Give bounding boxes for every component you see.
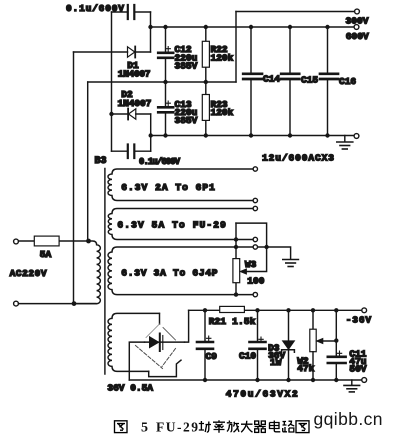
- diode D1 1N4007: [128, 47, 151, 58]
- terminal 600V: [354, 25, 359, 30]
- caption char 图: [115, 421, 128, 433]
- node C10 bottom: [255, 378, 259, 382]
- wire AC1 to fuse: [19, 240, 89, 242]
- terminal 0V top-right: [354, 134, 359, 139]
- svg-text:1N4007: 1N4007: [118, 68, 151, 79]
- svg-text:5A: 5A: [40, 249, 52, 260]
- fuse 5A: [34, 236, 59, 246]
- caption char 大: [241, 421, 253, 432]
- wire 0V rail y=135.5: [151, 135, 354, 137]
- diode D2 1N4007: [128, 109, 151, 120]
- wire D1 cathode vertical x=150.5: [150, 12, 152, 52]
- svg-text:R21 1.5k: R21 1.5k: [209, 316, 256, 327]
- svg-text:B3: B3: [95, 156, 107, 167]
- terminal AC1: [14, 239, 19, 244]
- svg-text:0.1u/600V: 0.1u/600V: [66, 3, 124, 14]
- potentiometer W2 wiper arrow: [316, 338, 336, 343]
- node D2 anode / 0V rail: [149, 133, 153, 137]
- svg-text:12u/600ACX3: 12u/600ACX3: [262, 153, 334, 164]
- transformer core: [104, 169, 106, 375]
- node C16 bottom: [325, 133, 329, 137]
- svg-text:AC220V: AC220V: [10, 268, 47, 279]
- terminal AC2: [14, 301, 19, 306]
- wire AC1 riser x=87.7 to mid rail: [87, 82, 89, 241]
- wire bridge left exit to bottom rail: [129, 342, 144, 380]
- ground (W3): [283, 260, 299, 267]
- resistor R23: [202, 82, 209, 136]
- caption char 放: [227, 421, 239, 433]
- node C11 top: [334, 308, 338, 312]
- wire top cap1 left vertical (AC2 net x=111.5): [111, 12, 113, 151]
- wire -36V rail y=310.3: [189, 309, 362, 311]
- wire AC2 riser x=73.5 to D1 anode: [73, 52, 75, 304]
- node C9 bottom: [203, 378, 207, 382]
- svg-text:36V 0.5A: 36V 0.5A: [107, 382, 153, 393]
- svg-text:6.3V 3A To 6J4P: 6.3V 3A To 6J4P: [121, 267, 217, 278]
- capacitor C9: [197, 310, 213, 380]
- capacitor C16: [320, 27, 338, 136]
- terminal 300V: [355, 9, 360, 14]
- wire D2 anode vertical x=150.7: [150, 114, 152, 151]
- svg-text:120k: 120k: [211, 52, 234, 63]
- terminal 0V bottom-right: [362, 378, 367, 383]
- node C13 bottom: [163, 133, 167, 137]
- wire bridge right exit to -36V rail: [185, 310, 189, 342]
- capacitor C13: [158, 82, 173, 136]
- node D3 top: [286, 308, 290, 312]
- terminal winding3 top: [253, 245, 257, 249]
- svg-text:FU-29: FU-29: [156, 420, 198, 435]
- node D1 cathode / 600V rail: [148, 25, 152, 29]
- caption char 器: [255, 421, 266, 432]
- node C10 top: [255, 308, 259, 312]
- wire winding4 bottom step to bridge: [149, 360, 181, 376]
- svg-text:gqibb.cn: gqibb.cn: [314, 409, 383, 429]
- caption 图 5 FU-29 ...: [115, 421, 128, 433]
- node C16 top: [325, 25, 329, 29]
- terminal winding1 bottom: [253, 198, 257, 202]
- node D2 cathode: [109, 112, 113, 116]
- svg-text:385V: 385V: [175, 115, 198, 126]
- node C11 bottom: [334, 378, 338, 382]
- transformer secondary winding 4 (36V 0.5A): [108, 313, 159, 371]
- svg-text:C10: C10: [239, 350, 256, 361]
- bridge rectifier feed wire: [159, 313, 161, 324]
- capacitor C10: [250, 310, 266, 380]
- zener diode D3: [282, 310, 295, 380]
- transformer secondary winding 3 (6.3V 3A): [108, 247, 253, 295]
- terminal winding2 top: [253, 206, 257, 210]
- wire cap2 left horizontal: [112, 150, 128, 152]
- node R22-R23 midpoint: [204, 80, 208, 84]
- capacitor C12: [158, 27, 173, 82]
- svg-text:600V: 600V: [346, 31, 369, 42]
- node C15 bottom: [288, 133, 292, 137]
- node W2 top: [311, 308, 315, 312]
- bridge rectifier center wire: [145, 341, 185, 343]
- svg-text:1N4007: 1N4007: [118, 98, 152, 109]
- capacitor C14: [243, 27, 262, 136]
- node fuse output: [86, 239, 91, 244]
- svg-text:47k: 47k: [297, 363, 314, 374]
- caption char 功: [199, 421, 211, 432]
- wire AC2 horizontal: [19, 303, 97, 305]
- node C9 top: [203, 308, 207, 312]
- transformer primary winding: [74, 241, 100, 304]
- svg-text:W3: W3: [245, 259, 257, 270]
- wire mid rail y=82 (doubler midpoint): [88, 81, 236, 83]
- ground top-right: [337, 136, 353, 150]
- capacitor 0.1u/600V top (cap plates): [128, 5, 135, 19]
- wire cap2 right horizontal: [136, 150, 151, 152]
- transformer secondary winding 1 (6.3V 2A): [108, 169, 253, 201]
- wire winding3-top to ground: [258, 247, 291, 259]
- wire 300V tap vertical x=236 down to mid rail: [235, 12, 237, 83]
- node D3 bottom: [286, 378, 290, 382]
- node wiper riser / ground wire: [264, 245, 268, 249]
- node R23 bottom: [204, 133, 208, 137]
- node W2 wiper / C11: [334, 338, 338, 342]
- potentiometer W2: [310, 310, 316, 380]
- potentiometer W3 column x=236: [235, 223, 237, 295]
- svg-text:1W: 1W: [270, 357, 282, 368]
- svg-text:120k: 120k: [211, 107, 234, 118]
- node C12-C13 midpoint: [163, 80, 167, 84]
- svg-text:C9: C9: [206, 351, 218, 362]
- svg-text:5: 5: [141, 421, 148, 436]
- svg-text:50V: 50V: [349, 364, 366, 375]
- capacitor 0.1u/600V bottom (cap plates): [128, 145, 135, 159]
- node R22 top: [204, 25, 208, 29]
- wire D1 anode horizontal: [74, 51, 128, 53]
- node C15 top: [288, 25, 292, 29]
- svg-text:100: 100: [247, 275, 264, 286]
- wire D2 cathode horizontal: [112, 113, 128, 115]
- potentiometer W3 body: [233, 259, 240, 283]
- capacitor C11: [328, 310, 346, 380]
- caption char 率: [213, 420, 225, 433]
- node C12 top: [163, 25, 167, 29]
- node winding3 bottom / pot: [234, 292, 238, 296]
- terminal winding2 bottom: [253, 237, 257, 241]
- svg-text:0.1u/600V: 0.1u/600V: [139, 157, 181, 167]
- caption char 电: [270, 421, 281, 432]
- node winding2 bottom / pot: [234, 237, 238, 241]
- capacitor C15: [281, 27, 299, 136]
- node AC2 bottom: [72, 301, 77, 306]
- svg-text:6.3V 2A To 6P1: 6.3V 2A To 6P1: [121, 182, 215, 193]
- wire cap1 left horizontal: [112, 11, 128, 13]
- svg-text:470u/63VX2: 470u/63VX2: [226, 389, 298, 400]
- resistor R22: [202, 27, 209, 82]
- node winding3 top / pot: [234, 245, 238, 249]
- node C14 top: [249, 25, 253, 29]
- bridge rectifier diode: [150, 334, 163, 352]
- node W2 bottom: [311, 378, 315, 382]
- svg-text:6.3V 5A To FU-29: 6.3V 5A To FU-29: [117, 220, 226, 231]
- terminal -36V: [362, 308, 367, 313]
- node C14 bottom: [249, 133, 253, 137]
- wire bottom rail y=379: [129, 379, 361, 381]
- resistor R21: [220, 306, 245, 312]
- potentiometer W3 wiper arrow: [236, 223, 267, 274]
- svg-text:C15: C15: [301, 74, 318, 85]
- wire 300V rail y=11.5: [236, 11, 354, 13]
- svg-text:C16: C16: [339, 76, 356, 87]
- terminal winding3 bottom: [253, 292, 257, 296]
- caption char 路: [283, 421, 295, 432]
- svg-text:385V: 385V: [175, 60, 198, 71]
- svg-text:-36V: -36V: [346, 314, 372, 325]
- wire 600V rail y=27: [151, 26, 354, 28]
- svg-text:C14: C14: [263, 74, 280, 85]
- caption char 图 (second): [296, 421, 309, 433]
- transformer secondary winding 2 (6.3V 5A): [108, 209, 252, 240]
- wire cap1 right horizontal: [136, 11, 151, 13]
- ground bottom-right: [344, 380, 360, 392]
- terminal winding1 top: [253, 167, 257, 171]
- bridge rectifier diamond: [136, 324, 176, 369]
